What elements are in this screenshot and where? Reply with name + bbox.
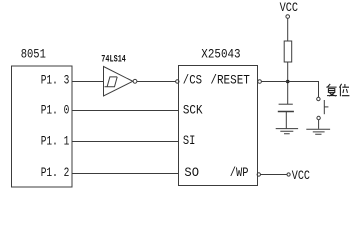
inverter U2 hysteresis symbol xyxy=(105,77,118,87)
svg-text:VCC: VCC xyxy=(280,0,299,15)
power VCC bottom terminal circle xyxy=(287,173,290,176)
ground G2 xyxy=(306,129,330,134)
wire /WP to VCC xyxy=(261,174,288,176)
bubble /RESET pin xyxy=(258,80,262,84)
svg-text:8051: 8051 xyxy=(21,46,46,61)
svg-text:VCC: VCC xyxy=(292,168,310,183)
svg-text:P1. 0: P1. 0 xyxy=(41,103,70,118)
svg-text:SI: SI xyxy=(183,133,196,148)
svg-text:SCK: SCK xyxy=(183,103,203,118)
inverter U2 74LS14 triangle xyxy=(104,67,133,97)
pushbutton S1 actuator tick xyxy=(324,106,328,108)
wire P1.1 to SI xyxy=(72,141,179,143)
pushbutton S1 top contact xyxy=(317,97,320,100)
svg-text:SO: SO xyxy=(184,165,199,180)
IC U1 8051 box xyxy=(12,66,73,187)
bubble /WP pin xyxy=(257,173,260,176)
svg-text:P1. 2: P1. 2 xyxy=(41,165,70,180)
IC U3 X25043 box xyxy=(179,66,258,186)
pushbutton S1 bottom contact xyxy=(317,116,320,119)
svg-text:X25043: X25043 xyxy=(201,46,240,61)
glyph 位 xyxy=(339,84,349,96)
wire capacitor C1 to ground xyxy=(285,112,287,128)
node junction dot xyxy=(286,80,290,84)
wire VCC to resistor R1 xyxy=(287,18,289,41)
svg-text:P1. 1: P1. 1 xyxy=(41,134,70,149)
glyph 复 xyxy=(326,84,337,96)
pushbutton S1 actuator bar xyxy=(323,100,325,114)
wire junction to pushbutton xyxy=(288,82,319,98)
ground G1 xyxy=(276,129,298,134)
wire resistor R1 to capacitor C1 xyxy=(287,62,289,104)
svg-text:P1. 3: P1. 3 xyxy=(41,73,70,88)
svg-text:/WP: /WP xyxy=(230,165,249,180)
wire P1.0 to SCK xyxy=(72,110,179,112)
capacitor C1 bottom plate xyxy=(278,111,294,113)
wire pushbutton to ground xyxy=(318,120,320,129)
bubble /CS pin xyxy=(176,80,179,83)
inverter U2 output bubble xyxy=(133,79,137,83)
label 复位 (reset) hand-drawn glyphs xyxy=(326,84,349,96)
wire P1.2 to SO xyxy=(72,173,179,175)
svg-text:/CS: /CS xyxy=(183,73,202,88)
power VCC top terminal circle xyxy=(286,15,290,19)
svg-text:74LS14: 74LS14 xyxy=(101,55,126,66)
resistor R1 xyxy=(284,41,292,62)
wire P1.3 to inverter input xyxy=(72,81,103,83)
svg-text:/RESET: /RESET xyxy=(210,73,250,88)
capacitor C1 top plate xyxy=(279,103,293,105)
wire /RESET to junction xyxy=(261,81,287,83)
wire inverter output to /CS xyxy=(137,81,176,83)
